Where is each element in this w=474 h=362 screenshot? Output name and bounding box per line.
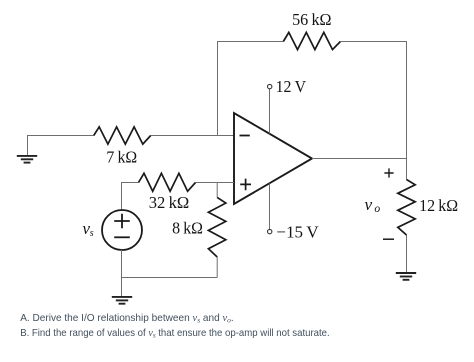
source plus sign: [114, 214, 130, 229]
terminal circle +12V: [268, 84, 272, 88]
resistor 8k: [208, 197, 225, 257]
resistor 56k: [283, 32, 340, 49]
svg-text:A. Derive the I/O relationship: A. Derive the I/O relationship between v…: [20, 313, 234, 325]
wire: 56k to top right corner and down: [340, 42, 406, 159]
wire: 8k top lead: [216, 183, 218, 198]
source vs circle: [102, 210, 142, 250]
wire: vs top lead and to 32k: [122, 183, 139, 211]
wire: 12k to ground: [406, 235, 408, 273]
wire: left ground stub to 7k resistor: [27, 136, 94, 156]
minus sign output: [383, 238, 394, 240]
ground (bottom center): [112, 297, 132, 304]
plus sign output: [384, 168, 393, 177]
source minus sign: [114, 236, 130, 238]
resistor 12k: [398, 180, 415, 236]
ground (right): [396, 273, 416, 280]
wire: feedback tap vertical: [217, 42, 219, 136]
resistor 7k: [94, 127, 151, 144]
wire: 8k bottom lead: [216, 257, 218, 278]
svg-text:8 kΩ: 8 kΩ: [172, 219, 203, 238]
ground (left): [17, 156, 37, 163]
wire: 7k to inverting input: [151, 135, 234, 137]
wire: op-amp output: [312, 159, 407, 180]
svg-text:−15 V: −15 V: [277, 223, 319, 242]
svg-text:7 kΩ: 7 kΩ: [106, 147, 137, 166]
op-amp triangle: [234, 113, 312, 204]
wire: negative supply: [269, 183, 271, 229]
op-amp plus sign: [240, 179, 251, 191]
svg-text:12 kΩ: 12 kΩ: [419, 196, 458, 215]
wire: positive supply: [269, 89, 271, 134]
svg-text:56 kΩ: 56 kΩ: [292, 10, 331, 29]
op-amp minus sign: [240, 135, 250, 137]
svg-text:B. Find the range of values of: B. Find the range of values of vs that e…: [20, 328, 330, 340]
wire: vs bottom lead to ground: [121, 250, 123, 297]
wire: top left to 56k: [217, 41, 283, 43]
wire: bottom return: [122, 277, 218, 279]
terminal circle -15V: [268, 229, 272, 233]
resistor 32k: [139, 173, 196, 191]
svg-text:32 kΩ: 32 kΩ: [149, 193, 190, 212]
wire: 32k to noninverting input: [196, 182, 235, 184]
svg-text:12 V: 12 V: [276, 77, 307, 96]
